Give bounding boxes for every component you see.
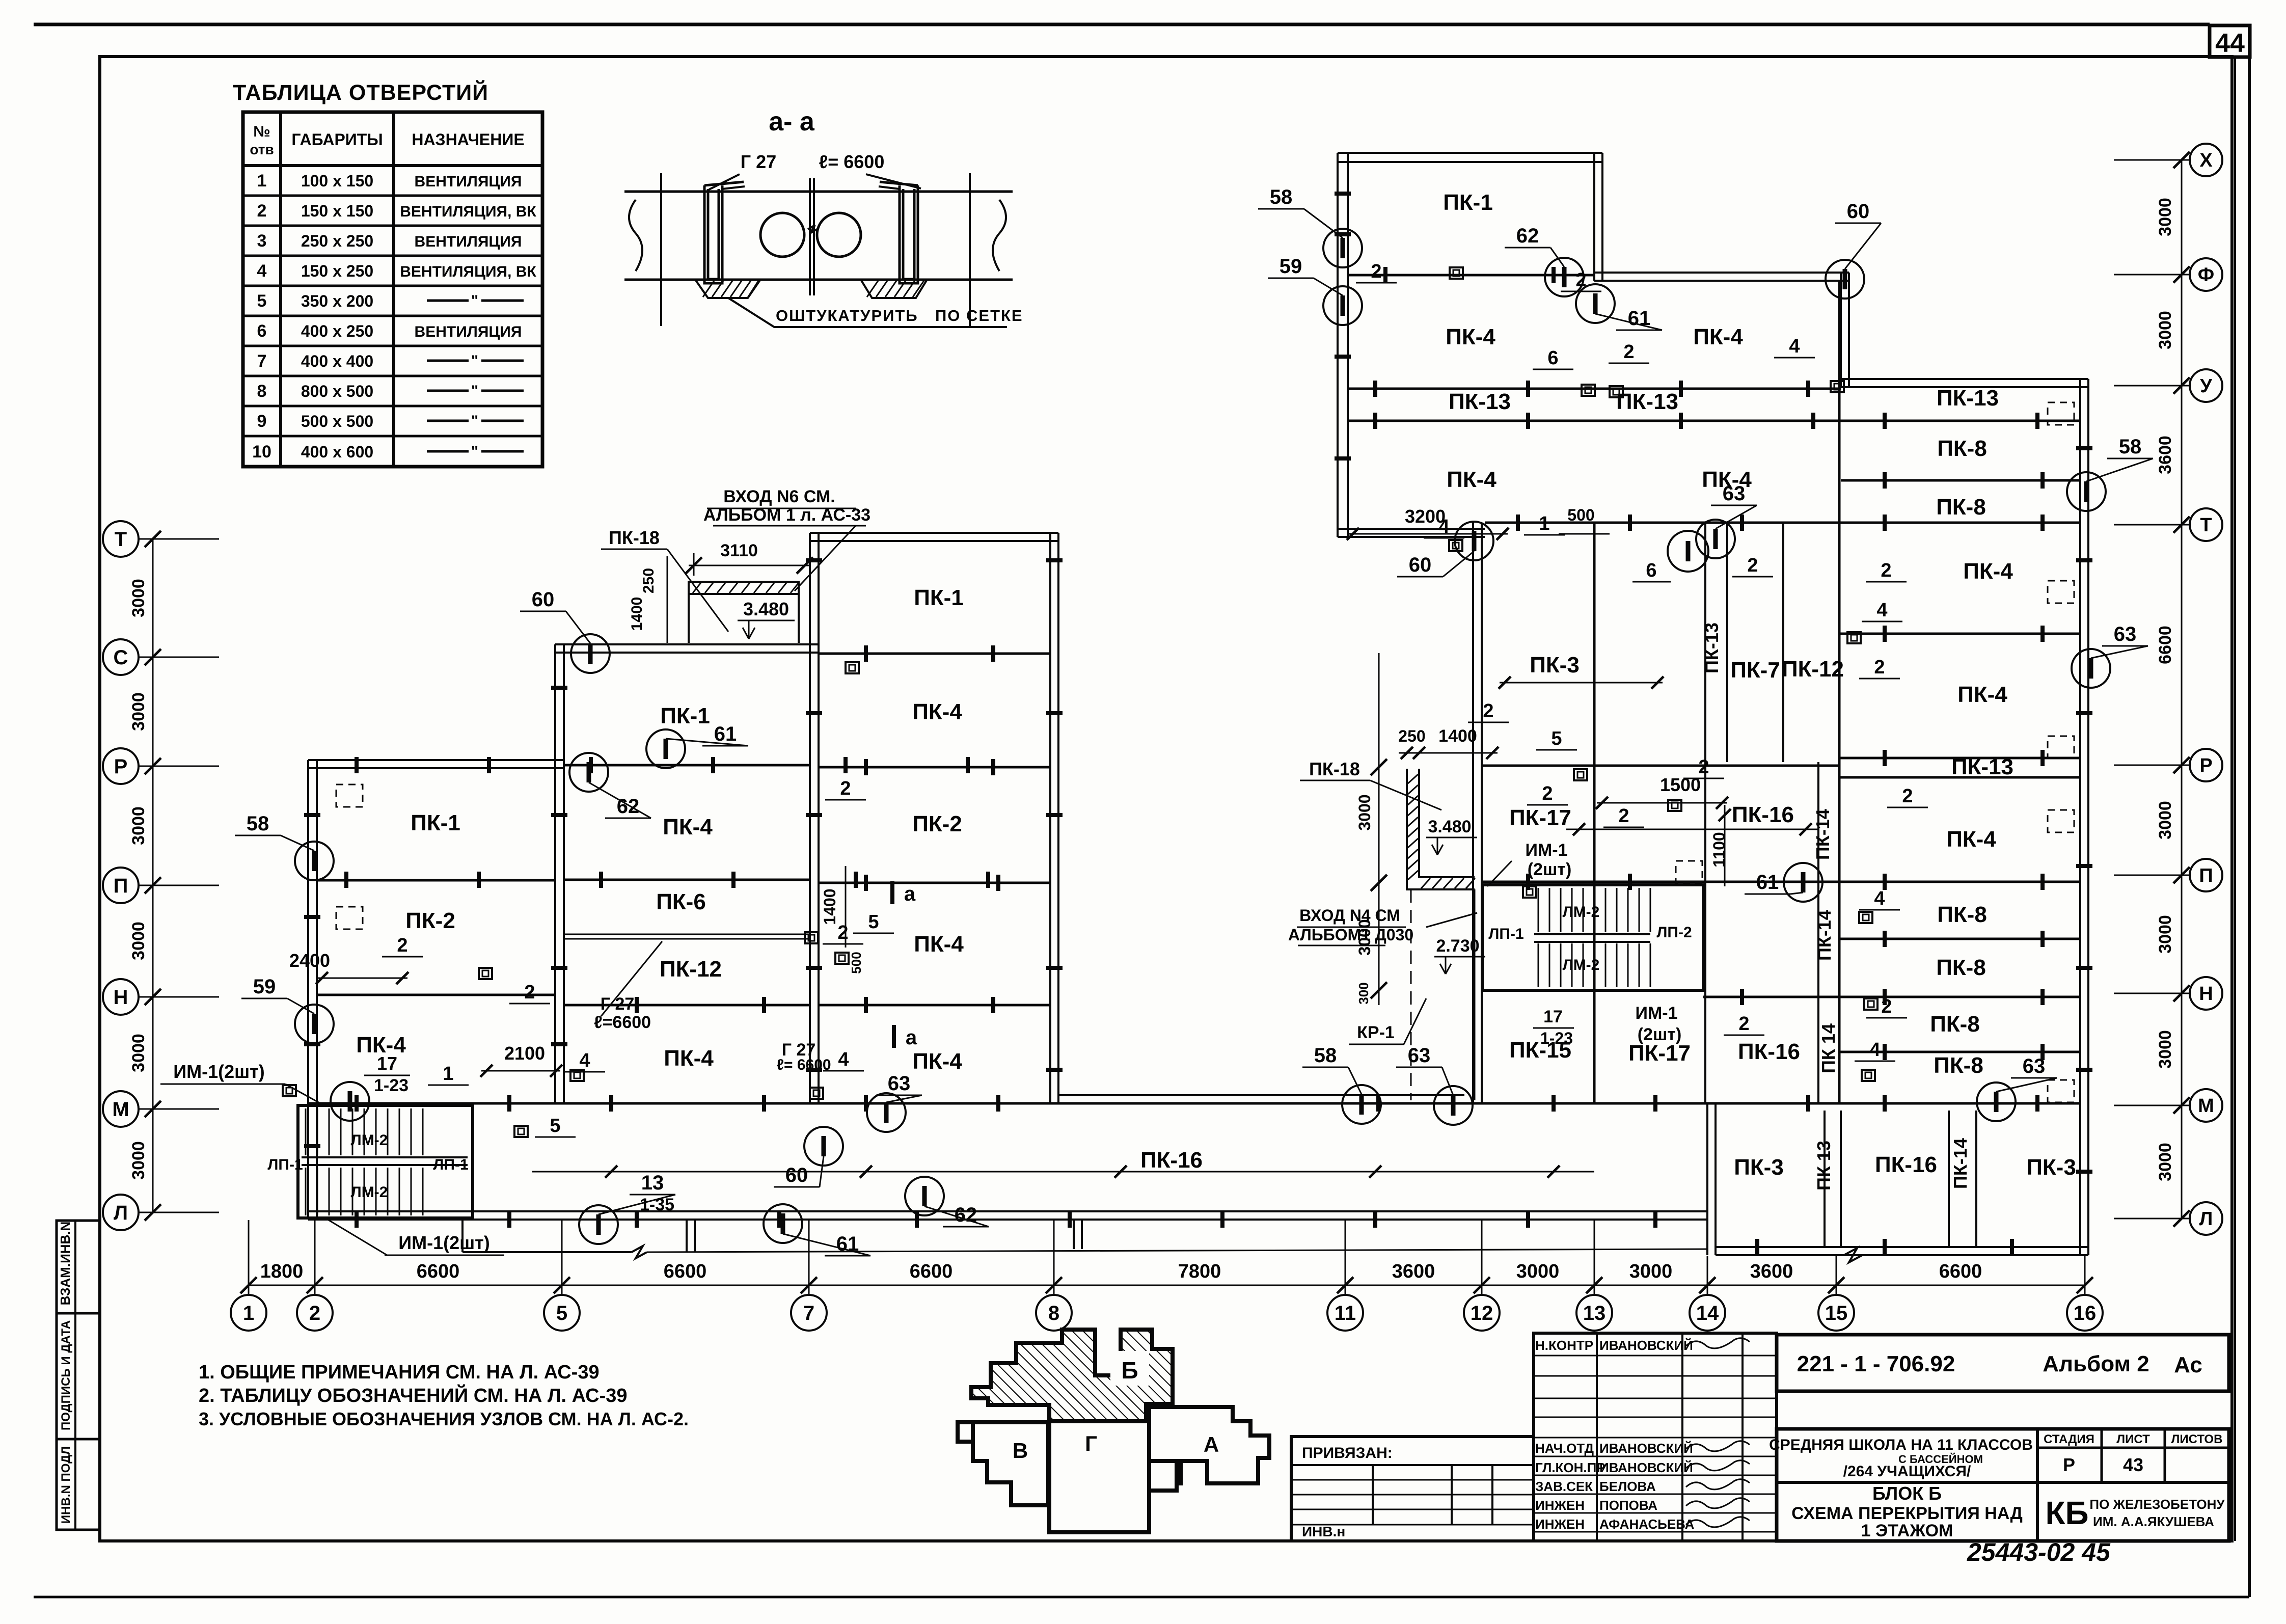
svg-text:ВЕНТИЛЯЦИЯ, ВК: ВЕНТИЛЯЦИЯ, ВК [400, 263, 536, 280]
svg-text:3000: 3000 [2156, 801, 2175, 840]
svg-text:а: а [906, 1026, 917, 1049]
svg-text:63: 63 [1408, 1044, 1431, 1067]
svg-text:ПРИВЯЗАН:: ПРИВЯЗАН: [1302, 1445, 1393, 1461]
svg-text:ПК-12: ПК-12 [660, 957, 722, 982]
svg-text:60: 60 [1847, 200, 1870, 223]
svg-text:ВХОД N6 СМ.: ВХОД N6 СМ. [723, 487, 835, 506]
svg-text:ПК-7: ПК-7 [1730, 658, 1780, 683]
svg-text:БЕЛОВА: БЕЛОВА [1599, 1479, 1656, 1494]
left channel steel [704, 185, 722, 283]
svg-text:ЗАВ.СЕК: ЗАВ.СЕК [1535, 1479, 1593, 1494]
svg-text:М: М [112, 1098, 129, 1121]
svg-text:ПК-13: ПК-13 [1616, 389, 1678, 414]
svg-text:(2шт): (2шт) [1638, 1025, 1682, 1044]
tall block bay lines [819, 653, 1050, 655]
svg-text:1 ЭТАЖОМ: 1 ЭТАЖОМ [1861, 1521, 1953, 1540]
svg-text:3000: 3000 [2156, 915, 2175, 954]
title main boxes [1777, 1335, 2229, 1391]
svg-text:Л: Л [2199, 1208, 2213, 1230]
stairwell right [1482, 885, 1703, 990]
svg-text:а- а: а- а [769, 107, 815, 137]
right lower block [1707, 1103, 1716, 1255]
left block top wall [308, 760, 564, 768]
tall block top wall [810, 533, 1058, 541]
svg-text:П: П [114, 875, 128, 897]
axis circle 13 bottom [1576, 1295, 1612, 1331]
svg-text:3.480: 3.480 [743, 599, 789, 619]
axis circle 2 bottom [297, 1295, 333, 1331]
svg-text:3.480: 3.480 [1428, 817, 1471, 836]
svg-text:": " [471, 353, 478, 369]
svg-text:ЛП-1: ЛП-1 [433, 1156, 468, 1173]
svg-text:АФАНАСЬЕВА: АФАНАСЬЕВА [1599, 1517, 1695, 1532]
svg-text:17: 17 [1543, 1007, 1563, 1026]
key plan block V [958, 1422, 1048, 1505]
svg-text:62: 62 [955, 1204, 977, 1226]
svg-text:2: 2 [1902, 786, 1913, 807]
svg-text:ПК-17: ПК-17 [1509, 805, 1571, 830]
svg-text:1-23: 1-23 [374, 1076, 409, 1095]
svg-text:ПК-16: ПК-16 [1140, 1148, 1203, 1173]
svg-text:": " [471, 443, 478, 460]
axis circle У right [2190, 369, 2222, 402]
svg-text:ПК-8: ПК-8 [1937, 436, 1987, 461]
svg-text:61: 61 [1756, 871, 1779, 894]
svg-text:3000: 3000 [129, 1034, 148, 1072]
svg-text:8: 8 [257, 382, 267, 401]
corridor south wall [308, 1211, 1707, 1220]
svg-text:ПК-3: ПК-3 [1734, 1155, 1784, 1180]
section slab top/bottom lines [624, 191, 1013, 193]
stairwell bottom-left [298, 1105, 473, 1218]
svg-text:№: № [253, 123, 270, 140]
title block privyazan box [1291, 1437, 1534, 1541]
svg-text:ИМ-1(2шт): ИМ-1(2шт) [173, 1061, 265, 1082]
svg-text:АЛЬБОМ1 Д030: АЛЬБОМ1 Д030 [1288, 926, 1413, 944]
svg-text:ИВАНОВСКИЙ: ИВАНОВСКИЙ [1599, 1460, 1693, 1475]
svg-text:КБ: КБ [2045, 1495, 2088, 1531]
svg-text:5: 5 [257, 291, 267, 311]
svg-text:ПК-4: ПК-4 [1957, 682, 2007, 707]
svg-text:ПОПОВА: ПОПОВА [1599, 1498, 1657, 1513]
svg-text:1400: 1400 [1438, 726, 1477, 746]
svg-text:221 - 1 - 706.92: 221 - 1 - 706.92 [1797, 1351, 1955, 1376]
svg-text:300: 300 [1356, 982, 1371, 1004]
wall on axis 7 [810, 533, 819, 1103]
svg-text:3. УСЛОВНЫЕ ОБОЗНАЧЕНИЯ УЗ: 3. УСЛОВНЫЕ ОБОЗНАЧЕНИЯ УЗЛОВ СМ. НА Л. … [199, 1409, 689, 1429]
svg-text:350 x 200: 350 x 200 [301, 292, 373, 310]
svg-text:100 x 150: 100 x 150 [301, 172, 373, 190]
svg-text:ВЕНТИЛЯЦИЯ: ВЕНТИЛЯЦИЯ [415, 173, 522, 190]
svg-text:60: 60 [785, 1164, 808, 1186]
svg-text:Р: Р [114, 755, 128, 778]
svg-text:8: 8 [1048, 1302, 1059, 1324]
svg-text:ПК-1: ПК-1 [660, 703, 710, 728]
svg-text:ПО ЖЕЛЕЗОБЕТОНУ: ПО ЖЕЛЕЗОБЕТОНУ [2089, 1497, 2225, 1512]
svg-text:ПК-2: ПК-2 [405, 908, 455, 933]
svg-text:ПК-14: ПК-14 [1814, 910, 1835, 961]
svg-text:В: В [1013, 1439, 1028, 1463]
svg-text:4: 4 [1876, 600, 1887, 621]
svg-text:1500: 1500 [1660, 774, 1701, 795]
plaster wedge right [861, 280, 927, 298]
svg-text:60: 60 [1409, 554, 1432, 576]
plaster wedge left [695, 280, 759, 298]
svg-text:ЛП-1: ЛП-1 [1488, 926, 1523, 942]
svg-text:ПК 14: ПК 14 [1818, 1023, 1839, 1073]
axis circle 12 bottom [1464, 1295, 1500, 1331]
svg-text:Р: Р [2199, 755, 2212, 776]
svg-text:П: П [2199, 865, 2213, 886]
svg-text:ПК-8: ПК-8 [1937, 902, 1987, 927]
svg-text:2: 2 [840, 778, 851, 799]
svg-text:ПК-8: ПК-8 [1936, 495, 1986, 520]
svg-text:ИМ. А.А.ЯКУШЕВА: ИМ. А.А.ЯКУШЕВА [2093, 1514, 2214, 1529]
svg-text:1: 1 [243, 1302, 254, 1324]
svg-text:6600: 6600 [2156, 626, 2175, 664]
svg-text:4: 4 [838, 1049, 849, 1070]
sheet number box 44 [2210, 25, 2250, 57]
svg-text:3600: 3600 [1392, 1261, 1435, 1282]
svg-text:ВХОД N4 СМ: ВХОД N4 СМ [1299, 906, 1400, 925]
axis circle 11 bottom [1327, 1295, 1363, 1331]
axis circle 15 bottom [1818, 1295, 1854, 1331]
svg-text:58: 58 [1314, 1044, 1337, 1067]
svg-text:1-23: 1-23 [1540, 1029, 1573, 1047]
svg-text:КР-1: КР-1 [1357, 1023, 1395, 1042]
axis circle Т right [2190, 508, 2222, 541]
svg-text:ПК-1: ПК-1 [914, 585, 964, 610]
svg-text:ИМ-1: ИМ-1 [1526, 841, 1568, 860]
signature table [1534, 1333, 1777, 1541]
svg-text:3000: 3000 [129, 692, 148, 731]
svg-text:2: 2 [837, 922, 848, 943]
svg-text:ИВАНОВСКИЙ: ИВАНОВСКИЙ [1599, 1441, 1693, 1456]
svg-text:500: 500 [1567, 506, 1594, 524]
axis circle М right [2190, 1089, 2222, 1122]
svg-text:СТАДИЯ: СТАДИЯ [2044, 1432, 2094, 1446]
svg-text:6600: 6600 [1939, 1261, 1982, 1282]
right block east wall A [1594, 153, 1602, 281]
slab centre break line [810, 178, 814, 295]
svg-text:3000: 3000 [129, 806, 148, 845]
svg-text:1: 1 [257, 171, 267, 191]
hollow core circle right [817, 213, 861, 257]
svg-text:2: 2 [309, 1302, 320, 1324]
right block bay lines top [1348, 274, 1594, 277]
svg-text:Ф: Ф [2198, 264, 2214, 286]
svg-text:ПК 13: ПК 13 [1813, 1141, 1834, 1190]
svg-text:44: 44 [2215, 29, 2245, 58]
svg-text:2. ТАБЛИЦУ ОБОЗНАЧЕНИЙ СМ.: 2. ТАБЛИЦУ ОБОЗНАЧЕНИЙ СМ. НА Л. АС-39 [199, 1384, 628, 1406]
right block verticals [1593, 523, 1596, 1103]
right block top wall B [1594, 273, 1849, 281]
svg-text:ИНВ.N ПОДЛ: ИНВ.N ПОДЛ [59, 1446, 73, 1524]
svg-text:ВЗАМ.ИНВ.N: ВЗАМ.ИНВ.N [58, 1222, 73, 1306]
svg-text:5: 5 [1551, 728, 1562, 749]
svg-text:ОШТУКАТУРИТЬ: ОШТУКАТУРИТЬ [776, 307, 918, 324]
svg-text:ЛИСТОВ: ЛИСТОВ [2171, 1432, 2223, 1446]
axis circle П left [103, 868, 139, 903]
svg-text:14: 14 [1696, 1302, 1719, 1324]
right block east outer wall [2080, 379, 2088, 1255]
PK-16 arrow line right [1566, 829, 1818, 830]
svg-text:ПК-17: ПК-17 [1628, 1041, 1691, 1066]
svg-text:6600: 6600 [910, 1261, 953, 1282]
svg-text:63: 63 [888, 1072, 911, 1095]
svg-text:(2шт): (2шт) [1528, 860, 1572, 879]
svg-text:ПК-4: ПК-4 [912, 1049, 962, 1074]
svg-text:4: 4 [257, 261, 267, 281]
svg-text:2: 2 [1623, 341, 1634, 363]
svg-text:1100: 1100 [1710, 832, 1728, 867]
svg-text:5: 5 [550, 1115, 560, 1136]
svg-text:ПК-4: ПК-4 [912, 699, 962, 724]
callout circle 6 [1668, 531, 1708, 572]
svg-text:ВЕНТИЛЯЦИЯ, ВК: ВЕНТИЛЯЦИЯ, ВК [400, 203, 536, 220]
left cut arc [629, 200, 642, 271]
svg-text:3000: 3000 [129, 579, 148, 617]
wall on axis 12 [1473, 523, 1482, 1103]
svg-text:ПК-12: ПК-12 [1782, 657, 1844, 682]
svg-text:ПК-1: ПК-1 [411, 810, 460, 835]
svg-text:С: С [114, 646, 128, 669]
svg-text:ПК-13: ПК-13 [1937, 386, 1999, 411]
svg-text:ПК-3: ПК-3 [2026, 1155, 2076, 1180]
svg-text:150 x 150: 150 x 150 [301, 202, 373, 220]
svg-text:": " [471, 413, 478, 429]
svg-text:1: 1 [1539, 513, 1549, 534]
axis circle Н left [103, 979, 139, 1015]
svg-text:ПК-1: ПК-1 [1443, 190, 1493, 215]
svg-text:3000: 3000 [1355, 794, 1374, 830]
svg-text:62: 62 [617, 795, 640, 818]
svg-text:ЛМ-2: ЛМ-2 [351, 1132, 388, 1149]
svg-text:3000: 3000 [129, 922, 148, 960]
svg-text:2: 2 [1881, 560, 1891, 581]
svg-text:Т: Т [2200, 515, 2212, 536]
svg-text:2: 2 [1483, 700, 1493, 722]
axis circle Т left [103, 521, 139, 557]
page outer border right [2248, 25, 2251, 1597]
break mark lower right block [1844, 1248, 1862, 1262]
svg-text:4: 4 [1874, 888, 1885, 909]
svg-text:2: 2 [1371, 261, 1381, 282]
svg-text:3000: 3000 [1355, 919, 1374, 955]
svg-text:11: 11 [1335, 1302, 1356, 1324]
svg-text:Р: Р [2063, 1454, 2075, 1475]
svg-text:БЛОК Б: БЛОК Б [1872, 1483, 1942, 1504]
right channel steel [900, 185, 918, 283]
svg-text:Альбом 2: Альбом 2 [2043, 1351, 2149, 1376]
svg-text:250 x 250: 250 x 250 [301, 232, 373, 250]
svg-text:ℓ= 6600: ℓ= 6600 [819, 151, 885, 172]
svg-text:ИМ-1: ИМ-1 [1636, 1004, 1678, 1023]
lower annex edge below corridor [461, 1220, 464, 1252]
bottom dimension line [249, 1285, 2085, 1286]
axis circle Л left [103, 1195, 139, 1230]
wall on axis 5 [555, 644, 564, 1103]
svg-text:17: 17 [377, 1053, 397, 1074]
svg-text:": " [471, 383, 478, 399]
right block east wall B [1841, 273, 1849, 387]
PK-3 arrow line [1500, 682, 1663, 684]
svg-text:ПК-8: ПК-8 [1930, 1012, 1980, 1037]
svg-text:ВЕНТИЛЯЦИЯ: ВЕНТИЛЯЦИЯ [415, 233, 522, 250]
svg-text:16: 16 [2074, 1302, 2097, 1324]
svg-text:ℓ= 6600: ℓ= 6600 [776, 1057, 831, 1073]
svg-text:ВЕНТИЛЯЦИЯ: ВЕНТИЛЯЦИЯ [415, 323, 522, 340]
svg-text:63: 63 [2114, 623, 2137, 645]
svg-text:3000: 3000 [2156, 198, 2175, 236]
page outer border top [34, 23, 2210, 26]
right block west wall [1338, 153, 1348, 537]
svg-text:ИНВ.н: ИНВ.н [1302, 1524, 1345, 1539]
axis circle П right [2190, 859, 2222, 891]
svg-text:3110: 3110 [720, 541, 758, 560]
svg-text:отв: отв [250, 142, 274, 157]
svg-text:6600: 6600 [664, 1261, 707, 1282]
svg-text:10: 10 [252, 442, 271, 462]
svg-text:Ас: Ас [2174, 1352, 2202, 1377]
PK-16 arrow line corridor [532, 1171, 1594, 1173]
svg-text:ПК-4: ПК-4 [1963, 559, 2013, 584]
svg-text:2: 2 [1747, 555, 1758, 576]
wall at T axis right block [1338, 529, 1485, 537]
svg-text:2: 2 [524, 982, 535, 1003]
svg-text:ЛП-2: ЛП-2 [1656, 924, 1692, 941]
svg-text:СРЕДНЯЯ ШКОЛА НА 11 КЛАССОВ: СРЕДНЯЯ ШКОЛА НА 11 КЛАССОВ [1769, 1437, 2033, 1453]
svg-text:500: 500 [849, 952, 864, 973]
svg-text:2400: 2400 [289, 950, 330, 971]
svg-text:ГАБАРИТЫ: ГАБАРИТЫ [291, 130, 383, 149]
svg-text:4: 4 [1869, 1039, 1880, 1061]
svg-text:4: 4 [579, 1050, 590, 1071]
axis circle 16 bottom [2067, 1295, 2103, 1331]
svg-text:Х: Х [2199, 150, 2213, 171]
svg-text:9: 9 [257, 412, 267, 431]
svg-text:60: 60 [532, 588, 555, 611]
svg-text:3000: 3000 [2156, 1143, 2175, 1181]
right block top wall C [1841, 379, 2088, 387]
svg-text:ПК-16: ПК-16 [1875, 1152, 1937, 1177]
svg-text:ПО СЕТКЕ: ПО СЕТКЕ [935, 307, 1023, 324]
svg-text:3: 3 [257, 231, 267, 251]
svg-text:3200: 3200 [1405, 506, 1446, 527]
section mark a lower [892, 1025, 896, 1048]
svg-text:2: 2 [1738, 1013, 1749, 1035]
svg-text:ПК-14: ПК-14 [1812, 809, 1833, 860]
svg-text:СХЕМА ПЕРЕКРЫТИЯ НАД: СХЕМА ПЕРЕКРЫТИЯ НАД [1791, 1504, 2023, 1523]
svg-text:ПК-13: ПК-13 [1951, 754, 2013, 779]
svg-text:М: М [2198, 1095, 2214, 1117]
axis circle 1 bottom [231, 1295, 266, 1331]
svg-text:59: 59 [1280, 255, 1302, 278]
svg-text:59: 59 [253, 976, 276, 998]
svg-text:58: 58 [247, 813, 269, 835]
left block outer wall west [308, 760, 317, 1220]
svg-text:63: 63 [1723, 482, 1746, 505]
svg-text:7800: 7800 [1178, 1261, 1221, 1282]
svg-text:13: 13 [1583, 1302, 1606, 1324]
svg-text:1400: 1400 [629, 597, 645, 631]
svg-text:ЛМ-2: ЛМ-2 [1563, 957, 1600, 973]
svg-text:ПК-18: ПК-18 [1309, 759, 1360, 779]
svg-text:2: 2 [397, 935, 407, 956]
svg-text:250: 250 [1398, 727, 1425, 745]
svg-text:ГЛ.КОН.ПР: ГЛ.КОН.ПР [1535, 1460, 1605, 1475]
svg-text:ПК-4: ПК-4 [1446, 324, 1495, 349]
svg-text:3000: 3000 [1629, 1261, 1673, 1282]
axis circle Ф right [2190, 258, 2222, 291]
openings table grid [243, 112, 542, 467]
svg-text:150 x 250: 150 x 250 [301, 262, 373, 280]
svg-text:": " [471, 292, 478, 309]
svg-text:3000: 3000 [2156, 1030, 2175, 1069]
svg-text:2: 2 [1874, 657, 1885, 678]
wall on axis 8 [1050, 533, 1058, 1103]
axis circle Л right [2190, 1202, 2222, 1235]
axis circle Н right [2190, 977, 2222, 1010]
svg-text:5: 5 [556, 1302, 567, 1324]
left axis dimension chain [152, 539, 154, 1212]
svg-text:6600: 6600 [417, 1261, 460, 1282]
svg-text:1: 1 [443, 1063, 453, 1085]
svg-text:1800: 1800 [260, 1261, 304, 1282]
svg-text:6: 6 [1547, 347, 1558, 369]
bottom-right block vertical dividers [1824, 1111, 1826, 1247]
svg-text:2: 2 [1542, 783, 1553, 804]
page outer border bottom [34, 1596, 2249, 1599]
svg-text:800 x 500: 800 x 500 [301, 382, 373, 400]
canopy PK-18 top (entrance N6) [689, 582, 799, 594]
svg-text:43: 43 [2123, 1454, 2143, 1475]
svg-text:ПК-4: ПК-4 [664, 1046, 714, 1071]
svg-text:ПК-13: ПК-13 [1449, 389, 1511, 414]
svg-text:Н: Н [2199, 983, 2213, 1005]
svg-text:Г: Г [1085, 1431, 1097, 1455]
svg-text:3600: 3600 [1750, 1261, 1793, 1282]
svg-text:ПК-4: ПК-4 [663, 815, 713, 840]
svg-text:ПК-8: ПК-8 [1936, 955, 1986, 980]
svg-text:ИМ-1(2шт): ИМ-1(2шт) [398, 1232, 490, 1253]
svg-text:2: 2 [257, 201, 267, 221]
svg-text:ТАБЛИЦА ОТВЕРСТИЙ: ТАБЛИЦА ОТВЕРСТИЙ [233, 80, 488, 105]
svg-text:12: 12 [1471, 1302, 1493, 1324]
svg-text:13: 13 [641, 1172, 664, 1194]
svg-text:ЛМ-2: ЛМ-2 [1563, 904, 1600, 921]
axis circle М left [103, 1091, 139, 1127]
leader to plaster note [728, 298, 1007, 327]
svg-text:ИНЖЕН: ИНЖЕН [1535, 1498, 1585, 1513]
svg-text:Н: Н [114, 986, 128, 1009]
svg-text:Л: Л [114, 1202, 128, 1224]
left stamp strip [57, 1221, 100, 1530]
svg-text:а: а [904, 883, 916, 905]
svg-text:ПК-16: ПК-16 [1732, 802, 1794, 827]
svg-text:1. ОБЩИЕ ПРИМЕЧАНИЯ СМ.: 1. ОБЩИЕ ПРИМЕЧАНИЯ СМ. НА Л. АС-39 [199, 1362, 600, 1383]
svg-text:2.730: 2.730 [1436, 936, 1479, 956]
svg-text:Г 27: Г 27 [741, 151, 776, 172]
svg-text:400 x 400: 400 x 400 [301, 352, 373, 370]
svg-text:7: 7 [257, 351, 267, 371]
svg-text:25443-02 45: 25443-02 45 [1967, 1538, 2111, 1566]
svg-text:ПК-4: ПК-4 [1946, 827, 1996, 852]
right cut arc [993, 200, 1006, 271]
axis circle Р right [2190, 749, 2222, 781]
svg-text:3000: 3000 [129, 1141, 148, 1180]
svg-text:ЛИСТ: ЛИСТ [2116, 1432, 2150, 1446]
